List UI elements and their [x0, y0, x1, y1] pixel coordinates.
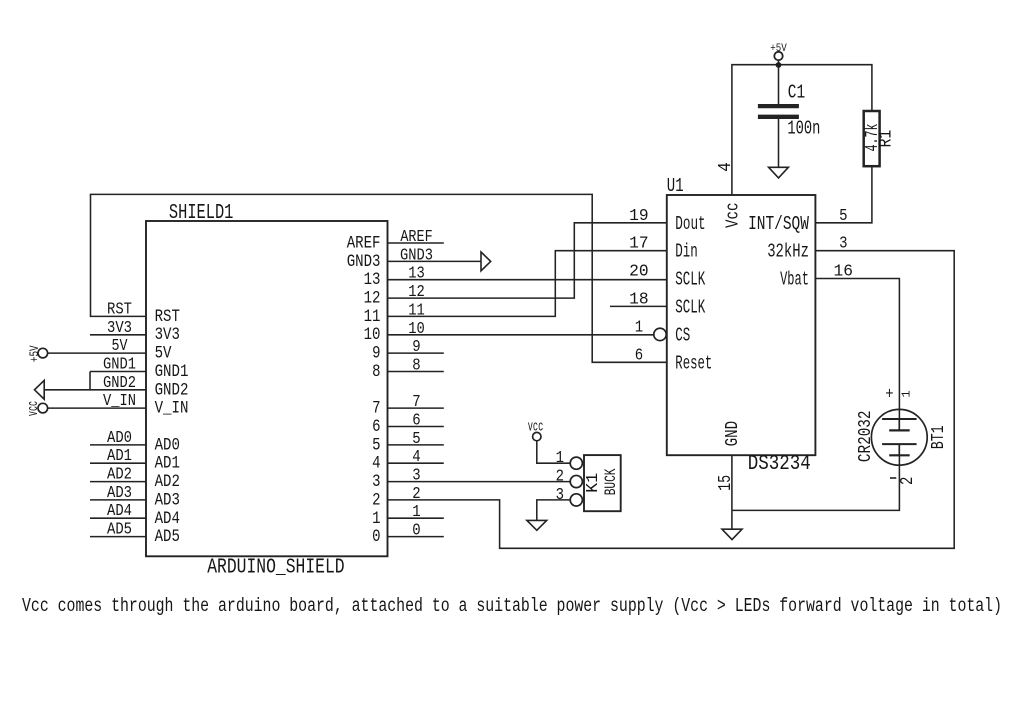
capacitor C1 plates: [758, 106, 799, 117]
svg-text:K1: K1: [583, 473, 603, 493]
svg-text:11: 11: [364, 307, 381, 327]
wire U1 GND pin down: [731, 455, 733, 510]
connector K1 BUCK box: [584, 455, 621, 511]
svg-text:1: 1: [372, 508, 380, 528]
wire GND stem: [731, 510, 733, 529]
svg-text:11: 11: [408, 300, 425, 320]
svg-text:vcc: vcc: [25, 401, 42, 416]
svg-text:3V3: 3V3: [155, 325, 180, 345]
svg-text:ARDUINO_SHIELD: ARDUINO_SHIELD: [207, 556, 344, 580]
ground under U1: [722, 529, 742, 539]
svg-text:+5V: +5V: [28, 345, 43, 362]
svg-text:GND3: GND3: [400, 245, 433, 265]
ground under C1: [769, 167, 789, 178]
svg-text:Reset: Reset: [675, 353, 712, 375]
svg-text:GND1: GND1: [155, 362, 189, 382]
wire +5V rail: [732, 60, 872, 195]
svg-text:SCLK: SCLK: [675, 270, 706, 292]
svg-text:1: 1: [556, 448, 564, 468]
wire 0 stub: [388, 536, 444, 538]
shield SHIELD1 box: [146, 221, 388, 556]
connector K1 pin 1 circle: [570, 457, 582, 469]
svg-text:BT1: BT1: [927, 425, 949, 449]
wire AD5 stub: [90, 536, 146, 538]
svg-text:3: 3: [372, 472, 380, 492]
svg-text:1: 1: [635, 317, 643, 337]
svg-text:RST: RST: [155, 307, 180, 327]
wire 4 stub: [388, 462, 444, 464]
wire 5 stub: [388, 444, 444, 446]
svg-text:7: 7: [412, 392, 420, 412]
svg-text:4: 4: [372, 453, 380, 473]
svg-text:RST: RST: [107, 299, 132, 319]
svg-text:2: 2: [372, 490, 380, 510]
junction at +5V rail / C1: [776, 62, 782, 68]
svg-text:INT/SQW: INT/SQW: [748, 214, 809, 236]
svg-text:AREF: AREF: [400, 227, 432, 247]
wire 8 stub: [388, 371, 444, 373]
svg-text:1: 1: [412, 502, 420, 522]
wire 3 to K1 pin2: [388, 481, 571, 483]
svg-text:8: 8: [412, 355, 420, 375]
svg-text:Dout: Dout: [675, 214, 705, 236]
wire AD3 stub: [90, 499, 146, 501]
svg-text:2: 2: [556, 466, 564, 486]
battery minus sign: [890, 477, 896, 479]
svg-text:6: 6: [372, 417, 380, 437]
power symbol +5V (left): [38, 348, 48, 358]
svg-text:13: 13: [408, 264, 425, 284]
svg-text:10: 10: [364, 325, 381, 345]
svg-text:4: 4: [412, 447, 420, 467]
svg-text:GND1: GND1: [103, 354, 136, 374]
battery BT1 circle: [871, 409, 927, 465]
svg-text:3: 3: [839, 234, 847, 254]
wire 1 stub: [388, 517, 444, 519]
power symbol +5V (top): [774, 52, 782, 60]
wire 18 stub: [610, 305, 667, 307]
svg-text:BUCK: BUCK: [603, 468, 620, 495]
svg-text:AD2: AD2: [155, 472, 180, 492]
power symbol vcc (left): [38, 403, 48, 413]
battery BT1 short plates: [889, 430, 910, 455]
svg-text:17: 17: [629, 234, 649, 254]
svg-text:AD5: AD5: [107, 519, 132, 539]
arrow flag on GND2 (open triangle left): [35, 380, 45, 399]
arrow flag on GND3 (open triangle right): [481, 252, 491, 271]
wire 10 to U1 CS: [388, 334, 654, 336]
wire 13 to U1 SCLK: [388, 279, 667, 281]
wire 7 stub: [388, 407, 444, 409]
svg-text:+: +: [885, 384, 893, 404]
svg-text:SHIELD1: SHIELD1: [169, 201, 234, 225]
svg-text:Din: Din: [675, 242, 698, 264]
wire 5V stub: [48, 352, 146, 354]
resistor R1 body: [864, 111, 880, 166]
svg-text:9: 9: [412, 337, 420, 357]
wire AD1 stub: [90, 462, 146, 464]
svg-text:CR2032: CR2032: [854, 411, 876, 463]
wire GND3: [388, 260, 482, 262]
wire GND2: [44, 389, 146, 391]
wire GND1 stub: [90, 371, 146, 373]
wire AREF stub: [388, 242, 444, 244]
wire 12 to U1 Dout: [388, 223, 667, 298]
svg-text:6: 6: [412, 410, 420, 430]
connector K1 pin 3 circle: [570, 494, 582, 506]
svg-text:Vcc comes through the arduino: Vcc comes through the arduino board, att…: [22, 596, 1002, 617]
svg-text:13: 13: [364, 270, 381, 290]
wire 2 to U1 32kHz: [388, 251, 955, 549]
svg-text:20: 20: [629, 261, 649, 281]
wire GND1-GND2 bridge: [89, 372, 91, 390]
svg-text:9: 9: [372, 343, 380, 363]
svg-text:GND2: GND2: [155, 380, 189, 400]
wire AD0 stub: [90, 444, 146, 446]
svg-text:U1: U1: [667, 176, 684, 198]
svg-text:+5V: +5V: [770, 42, 787, 55]
svg-text:32kHz: 32kHz: [767, 242, 809, 264]
svg-text:2: 2: [412, 484, 420, 504]
svg-text:3: 3: [556, 485, 564, 505]
wire C1 bottom lead: [778, 119, 780, 167]
wire 3V3 stub: [90, 334, 146, 336]
svg-text:AREF: AREF: [347, 233, 381, 253]
svg-text:10: 10: [408, 319, 425, 339]
svg-text:V_IN: V_IN: [103, 391, 136, 411]
battery BT1 internal leads: [898, 419, 900, 455]
svg-text:GND3: GND3: [347, 252, 381, 272]
svg-text:DS3234: DS3234: [748, 452, 811, 476]
ground under K1: [527, 520, 547, 530]
svg-text:8: 8: [372, 362, 380, 382]
svg-text:3: 3: [412, 465, 420, 485]
svg-text:AD5: AD5: [155, 527, 180, 547]
svg-text:AD3: AD3: [155, 490, 180, 510]
svg-text:5: 5: [372, 435, 380, 455]
inverting bubble on U1 CS pin: [654, 328, 666, 340]
battery BT1 long plates: [882, 419, 917, 444]
wire R1 bottom to INT/SQW: [815, 166, 872, 223]
svg-text:AD4: AD4: [155, 508, 180, 528]
svg-text:AD3: AD3: [107, 483, 132, 503]
svg-text:3V3: 3V3: [107, 318, 132, 338]
svg-text:AD1: AD1: [107, 446, 132, 466]
svg-text:5V: 5V: [155, 343, 172, 363]
wire AD4 stub: [90, 517, 146, 519]
svg-text:AD4: AD4: [107, 501, 132, 521]
wire RST net (shield RST to U1 Reset): [91, 194, 667, 362]
svg-text:5V: 5V: [112, 336, 129, 356]
IC U1 DS3234 box: [667, 195, 816, 455]
svg-text:2: 2: [896, 477, 917, 485]
wire vcc to K1 pin1: [537, 441, 570, 464]
svg-text:AD2: AD2: [107, 464, 132, 484]
wire 11 to U1 Din: [388, 251, 667, 317]
svg-text:Vbat: Vbat: [780, 270, 809, 292]
svg-text:6: 6: [635, 345, 643, 365]
svg-text:CS: CS: [675, 325, 690, 347]
svg-text:12: 12: [408, 282, 425, 302]
svg-text:AD1: AD1: [155, 453, 180, 473]
svg-text:SCLK: SCLK: [675, 297, 706, 319]
svg-text:1: 1: [900, 390, 914, 397]
wire GND rail to battery minus: [732, 455, 900, 510]
svg-text:C1: C1: [788, 82, 805, 104]
svg-text:7: 7: [372, 398, 380, 418]
svg-text:R1: R1: [875, 130, 896, 148]
svg-text:V_IN: V_IN: [155, 398, 189, 418]
svg-text:vcc: vcc: [528, 418, 544, 435]
svg-text:5: 5: [412, 429, 420, 449]
wire V_IN stub: [48, 407, 146, 409]
svg-text:AD0: AD0: [107, 428, 132, 448]
svg-text:12: 12: [364, 288, 381, 308]
svg-text:19: 19: [629, 206, 649, 226]
connector K1 pin 2 circle: [570, 475, 582, 487]
svg-text:GND: GND: [721, 421, 743, 447]
svg-text:AD0: AD0: [155, 435, 180, 455]
wire 9 stub: [388, 352, 444, 354]
svg-text:0: 0: [372, 527, 380, 547]
svg-text:0: 0: [412, 520, 420, 540]
wire C1 top lead: [778, 65, 780, 104]
power symbol vcc (K1): [533, 432, 541, 440]
svg-text:100n: 100n: [787, 118, 820, 140]
wire 6 stub: [388, 426, 444, 428]
wire AD2 stub: [90, 481, 146, 483]
wire Vbat to battery plus: [815, 279, 899, 420]
wire K1 pin3 to ground: [537, 500, 570, 521]
svg-text:GND2: GND2: [103, 373, 136, 393]
svg-text:Vcc: Vcc: [721, 203, 743, 229]
